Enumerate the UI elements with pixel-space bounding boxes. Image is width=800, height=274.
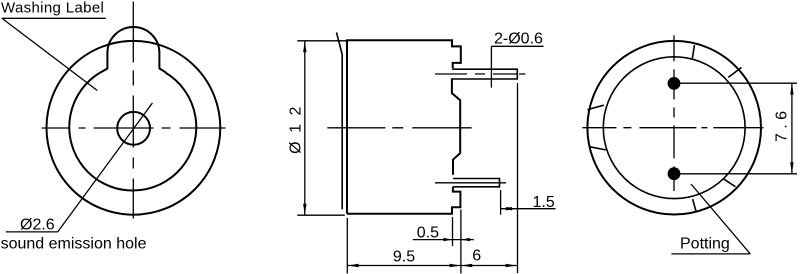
svg-text:Potting: Potting: [680, 235, 730, 252]
svg-text:9.5: 9.5: [393, 249, 415, 266]
bottom pin dot: [668, 167, 681, 180]
Ø12 dimension line with arrows: [304, 41, 306, 215]
outer circle (body rim, front view): [46, 41, 220, 215]
0.5 extension line A: [452, 217, 454, 246]
top pin dot: [668, 77, 681, 90]
tab right side + chamfer: [159, 53, 166, 73]
bottom pin outline: [453, 179, 500, 187]
2-Ø0.6 leader down across top pin: [490, 46, 492, 87]
crimp tick lower-right: [724, 179, 736, 187]
Ø12 top extension line: [297, 40, 348, 42]
Potting leader line: [691, 184, 750, 254]
svg-text:Washing Label: Washing Label: [1, 0, 104, 16]
svg-text:7.6: 7.6: [774, 106, 791, 142]
outer circle (back view): [587, 41, 761, 215]
sound emission hole circle: [117, 112, 150, 145]
crimp tick lower-left: [590, 147, 606, 150]
svg-text:2-Ø0.6: 2-Ø0.6: [494, 31, 543, 48]
7.6 top extension line: [676, 82, 797, 84]
body horizontal centerline (side view): [327, 127, 471, 129]
svg-text:sound emission hole: sound emission hole: [1, 235, 147, 252]
crimp tick upper-left: [588, 105, 604, 110]
washing label edge line + bent tab on side view: [337, 32, 343, 209]
7.6 bottom extension line: [676, 173, 797, 175]
body outline (side view): [347, 40, 461, 214]
crimp tick bottom: [693, 199, 696, 211]
bottom pin centerline: [435, 182, 506, 184]
crimp tick upper-right: [728, 67, 741, 77]
svg-text:0.5: 0.5: [417, 225, 439, 242]
washing label leader line: [3, 19, 97, 91]
pin tip long extension line: [517, 83, 519, 273]
vertical centerline (right view): [673, 35, 675, 191]
svg-text:6: 6: [472, 248, 481, 265]
svg-text:Ø2.6: Ø2.6: [20, 217, 55, 234]
Ø12 bottom extension line: [297, 214, 345, 216]
2-Ø0.6 underline: [491, 45, 543, 47]
0.5 underline + dimension line: [413, 239, 474, 241]
0.5 extension line B (long, down to 9.5/6 dim): [460, 210, 462, 274]
crimp tick top: [692, 45, 694, 58]
vertical centerline (left view): [132, 2, 134, 220]
7.6 dimension line with arrows: [791, 83, 793, 174]
top pin outline: [452, 69, 517, 79]
1.5 extension line (bottom pin tip): [500, 190, 502, 215]
washing label tab arc: [107, 27, 159, 53]
Ø2.6 underline: [6, 231, 58, 233]
svg-text:Ø12: Ø12: [288, 98, 305, 154]
Ø2.6 leader line through hole center: [58, 103, 153, 232]
tab left side + chamfer: [101, 53, 108, 73]
Potting underline: [671, 253, 750, 255]
top pin centerline: [435, 73, 526, 75]
washing label leader underline: [2, 17, 106, 19]
horizontal centerline (left view): [42, 127, 226, 129]
9.5 / 6 dimension line: [347, 265, 517, 267]
horizontal centerline (right view): [582, 127, 764, 129]
9.5 left extension line: [346, 218, 348, 274]
inner circle (washing label edge), gap at top where tab sits: [69, 72, 196, 191]
1.5 dimension line: [501, 208, 556, 210]
inner circle (potting edge): [603, 57, 745, 199]
svg-text:1.5: 1.5: [533, 194, 555, 211]
